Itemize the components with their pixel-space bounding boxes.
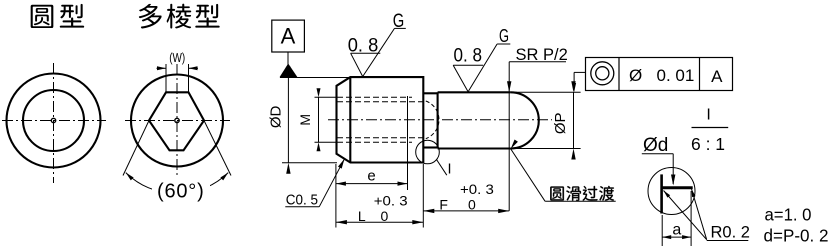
- datum triangle: [280, 64, 298, 78]
- svg-text:L: L: [358, 208, 366, 224]
- detail title fraction line: [692, 127, 729, 129]
- 60deg right extension line: [204, 121, 231, 176]
- neck top edge: [423, 92, 437, 94]
- datum A box: [272, 20, 305, 52]
- neck-pin step edge: [437, 92, 439, 148]
- detail I circle: [416, 140, 440, 164]
- C0.5 leader with arrow: [319, 159, 344, 207]
- M top extension line: [315, 96, 338, 98]
- hidden thread major top: [337, 96, 412, 98]
- C0.5 underline: [285, 206, 319, 208]
- detail I leader: [437, 160, 447, 176]
- Φd leader with arrow: [672, 154, 674, 184]
- svg-text:I: I: [706, 107, 710, 124]
- W dim extension lines: [165, 64, 167, 92]
- SR P/2 underline: [509, 61, 566, 63]
- datum stem: [287, 52, 289, 65]
- poly view vertical centerline: [176, 64, 178, 181]
- surface mark 1 symbol: [351, 52, 381, 54]
- svg-text:Ød: Ød: [643, 135, 668, 156]
- poly view circle: [131, 75, 223, 167]
- detail pin face edge: [660, 174, 663, 213]
- svg-text:A: A: [711, 67, 723, 86]
- svg-text:a: a: [672, 222, 681, 239]
- sphere end arc: [511, 92, 539, 148]
- 60deg left extension line: [123, 121, 149, 176]
- ΦD dimension line: [287, 78, 289, 163]
- svg-text:0. 01: 0. 01: [657, 66, 695, 85]
- body outline: [337, 77, 424, 162]
- svg-text:Ø: Ø: [629, 66, 642, 85]
- pin bottom edge: [438, 147, 511, 149]
- svg-text:ØD: ØD: [268, 105, 285, 128]
- svg-text:(W): (W): [169, 50, 185, 65]
- ΦP bottom extension line: [511, 148, 581, 150]
- a right extension line: [690, 191, 692, 246]
- round view inner circle: [23, 90, 84, 151]
- Φd underline: [642, 153, 673, 155]
- ΦP dimension line: [573, 92, 575, 148]
- svg-text:e: e: [367, 168, 375, 185]
- SR P/2 leader with arrow: [508, 62, 510, 211]
- svg-text:6 : 1: 6 : 1: [691, 134, 725, 154]
- svg-text:A: A: [281, 24, 296, 49]
- svg-text:C0. 5: C0. 5: [286, 191, 318, 208]
- M dimension line: [318, 97, 320, 142]
- smooth-transition underline: [545, 200, 616, 202]
- hidden hole end dome: [426, 101, 439, 139]
- 60deg arc arrowheads: [124, 171, 133, 180]
- ΦD bottom extension line: [282, 162, 337, 164]
- R0.2 leader 1: [664, 191, 707, 240]
- main view centerline: [328, 119, 552, 121]
- label round-type (圆型): [31, 4, 85, 28]
- svg-text:F: F: [439, 197, 448, 213]
- svg-text:I: I: [447, 162, 451, 178]
- hidden thread major bottom: [337, 141, 412, 143]
- 60deg dimension arc: [126, 173, 228, 194]
- body chamfer edge line: [349, 77, 351, 162]
- detail transition edge: [662, 186, 693, 189]
- svg-text:+0. 3: +0. 3: [460, 181, 494, 197]
- svg-text:d=P-0. 2: d=P-0. 2: [764, 226, 829, 246]
- round view outer circle: [7, 74, 101, 168]
- poly view center mark: [175, 118, 179, 122]
- svg-text:SR P/2: SR P/2: [516, 46, 568, 64]
- e dimension line: [336, 183, 408, 185]
- svg-text:0: 0: [468, 197, 476, 213]
- label poly-type (多棱型): [139, 4, 220, 29]
- detail circle: [648, 168, 695, 215]
- e extension line: [407, 96, 409, 190]
- svg-text:0. 8: 0. 8: [348, 35, 379, 56]
- F dimension line: [423, 210, 509, 212]
- svg-text:R0. 2: R0. 2: [711, 224, 750, 242]
- tolerance frame box: [586, 58, 733, 91]
- a left extension line: [661, 215, 663, 246]
- svg-text:a=1. 0: a=1. 0: [765, 204, 812, 224]
- neck bottom edge: [423, 146, 437, 148]
- frame leader: [574, 71, 585, 73]
- smooth-transition leader: [511, 149, 545, 201]
- smooth-transition text (圆滑过渡): [550, 186, 614, 201]
- ΦP top extension line: [511, 91, 581, 93]
- 60deg text background: [152, 177, 210, 202]
- L right extension line: [422, 164, 424, 228]
- concentricity symbol: [591, 62, 614, 85]
- pin top edge: [438, 91, 511, 93]
- svg-text:(60°): (60°): [157, 181, 205, 203]
- a dimension line: [662, 236, 691, 238]
- R0.2 underline: [707, 240, 749, 242]
- W dim line with arrows: [157, 67, 167, 69]
- svg-text:0: 0: [381, 208, 389, 224]
- svg-text:ØP: ØP: [552, 112, 569, 134]
- e left extension line: [335, 164, 337, 228]
- poly view hex socket: [149, 92, 204, 150]
- round view center mark: [51, 118, 55, 122]
- M bottom extension line: [315, 141, 338, 143]
- round view horizontal centerline: [2, 120, 106, 122]
- hidden thread minor top: [337, 101, 426, 103]
- svg-text:M: M: [297, 114, 313, 126]
- svg-text:0. 8: 0. 8: [454, 46, 483, 67]
- R0.2 leader 2: [692, 189, 707, 240]
- round view vertical centerline: [53, 63, 55, 183]
- surface mark 2 symbol: [453, 64, 483, 66]
- svg-text:+0. 3: +0. 3: [374, 192, 408, 208]
- svg-text:G: G: [393, 11, 405, 32]
- L dimension line: [336, 221, 423, 223]
- poly view horizontal centerline: [125, 120, 230, 122]
- svg-text:G: G: [499, 26, 509, 46]
- hidden thread minor bottom: [337, 137, 426, 139]
- ΦD top extension line: [280, 77, 350, 79]
